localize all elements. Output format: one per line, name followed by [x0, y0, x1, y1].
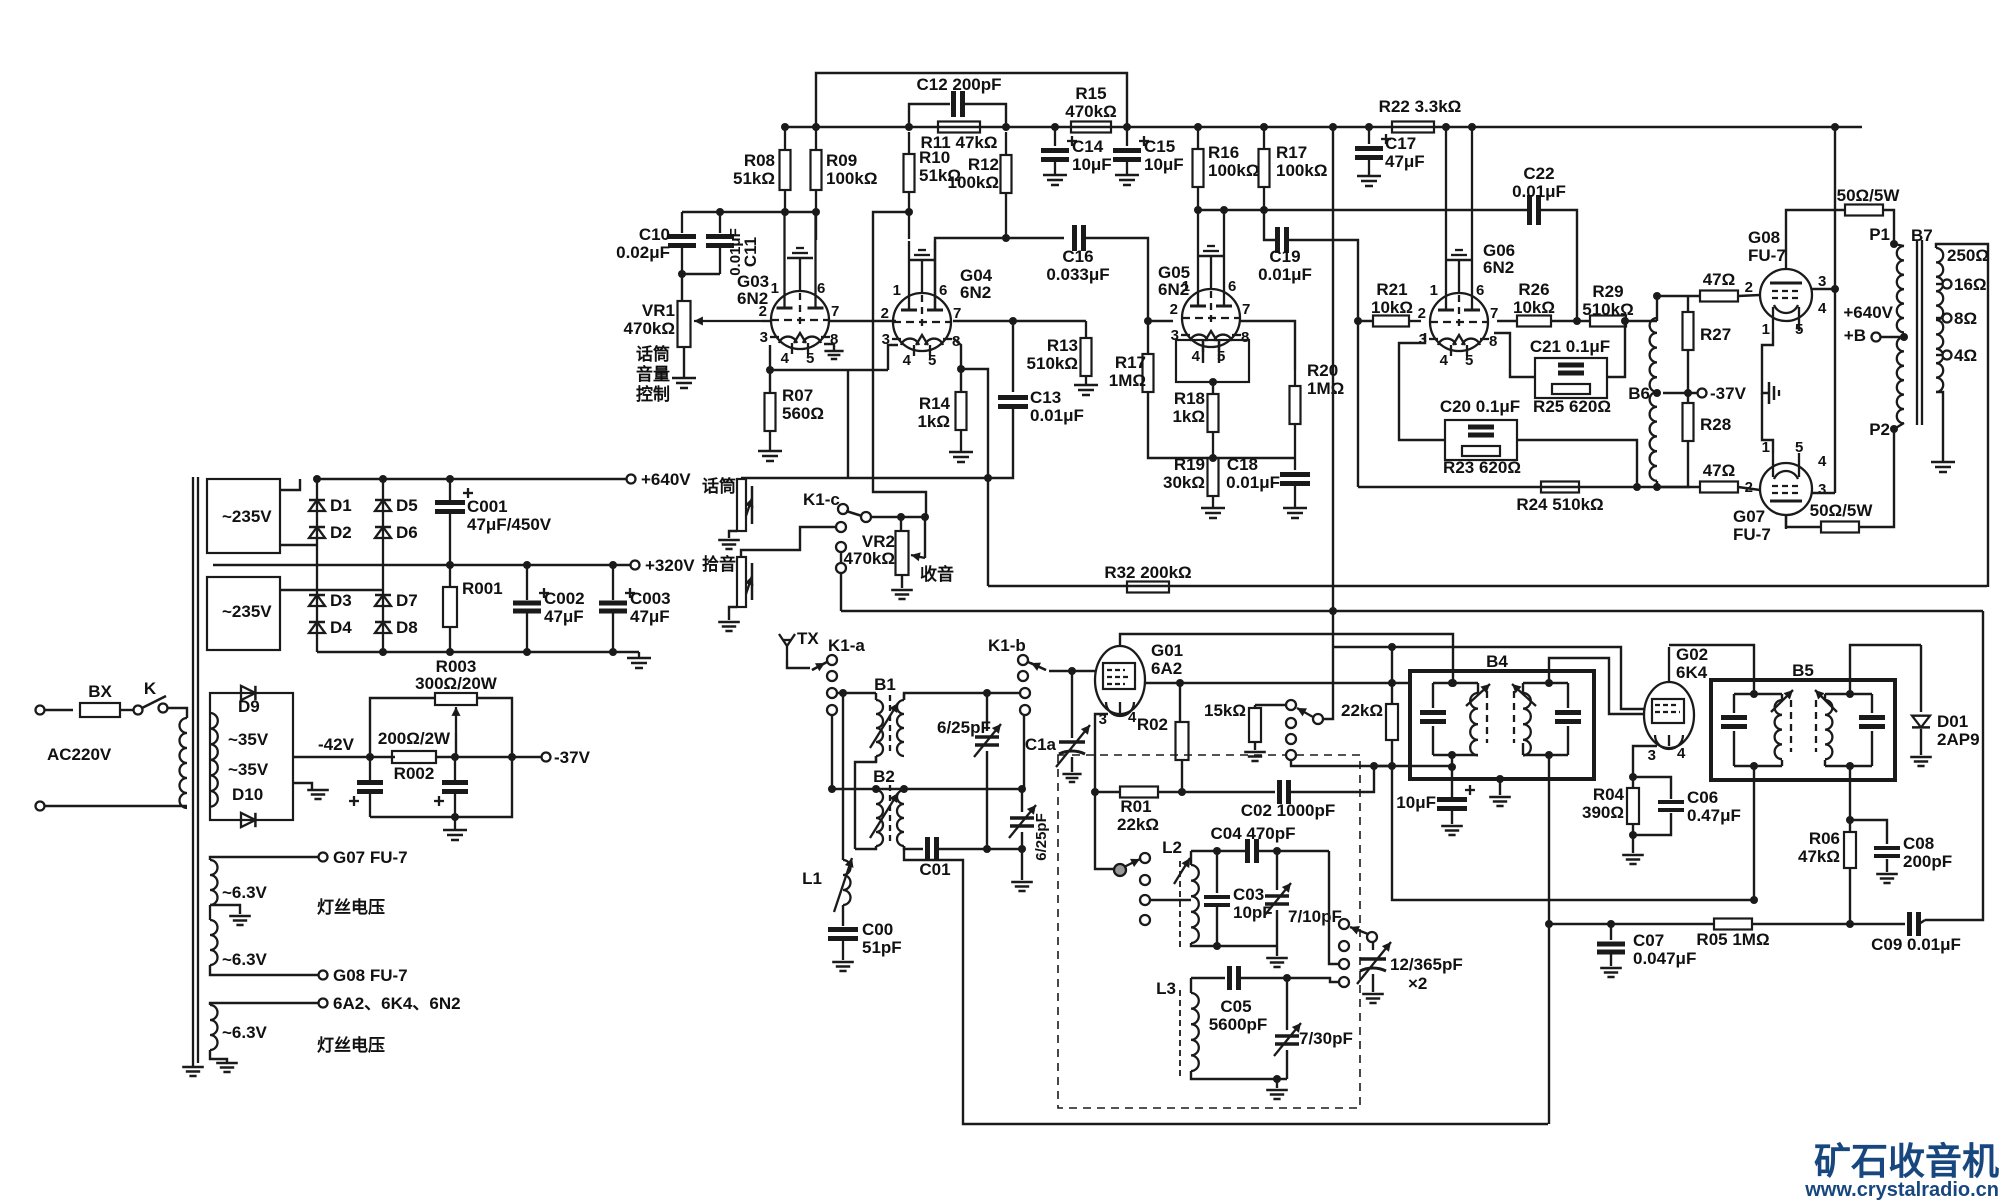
- svg-text:6/25pF: 6/25pF: [1033, 813, 1050, 861]
- capacitor C11: [706, 212, 760, 276]
- capacitor C06: [1633, 777, 1741, 835]
- svg-text:3: 3: [1818, 273, 1826, 290]
- wire R24 row: [1358, 486, 1690, 488]
- capacitor C05: [1209, 966, 1268, 1034]
- wire B2 gnd link: [904, 846, 963, 867]
- wire G03 pin8 gnd: [824, 344, 844, 359]
- wire 22k down: [1392, 766, 1754, 900]
- svg-text:-37V: -37V: [1710, 384, 1747, 403]
- resistor 47b: [1700, 461, 1738, 493]
- trimmer 7/30: [1274, 978, 1353, 1079]
- svg-text:51kΩ: 51kΩ: [733, 169, 775, 188]
- svg-text:510kΩ: 510kΩ: [1582, 300, 1633, 319]
- svg-text:R18: R18: [1174, 389, 1205, 408]
- ground VR2: [891, 590, 913, 599]
- wire G07 cathode: [1762, 393, 1773, 453]
- capacitor 10uF: [1396, 767, 1475, 824]
- svg-text:R28: R28: [1700, 415, 1731, 434]
- svg-text:300Ω/20W: 300Ω/20W: [415, 674, 498, 693]
- svg-text:7/30pF: 7/30pF: [1299, 1029, 1353, 1048]
- terminal 6A2 heater: [319, 994, 461, 1013]
- svg-text:C01: C01: [919, 860, 950, 879]
- wire C05 right: [1239, 974, 1339, 982]
- svg-text:~6.3V: ~6.3V: [222, 1023, 268, 1042]
- terminal G07 heater: [319, 848, 408, 867]
- capacitor C12: [916, 75, 1001, 117]
- tube G01 6A2: [1095, 646, 1145, 716]
- trimmer 6/25 a: [937, 693, 1001, 849]
- wire to VR1: [681, 274, 683, 302]
- svg-text:7/10pF: 7/10pF: [1288, 907, 1342, 926]
- svg-text:C02 1000pF: C02 1000pF: [1241, 801, 1336, 820]
- pentode G07: [1760, 453, 1812, 529]
- svg-text:D10: D10: [232, 785, 263, 804]
- label L2: [1162, 838, 1182, 857]
- svg-text:R08: R08: [744, 151, 775, 170]
- svg-text:R22 3.3kΩ: R22 3.3kΩ: [1379, 97, 1462, 116]
- svg-text:话筒: 话筒: [702, 476, 736, 496]
- B4 left cap: [1420, 683, 1446, 755]
- capacitor C14: [1041, 127, 1112, 175]
- svg-text:5: 5: [1795, 321, 1803, 338]
- svg-text:560Ω: 560Ω: [782, 404, 824, 423]
- contact K1a 4: [827, 705, 837, 715]
- wire G04 pin8 down: [953, 338, 965, 373]
- switch K1-b: [988, 636, 1030, 715]
- resistor R13: [1027, 321, 1092, 385]
- potentiometer VR1: [624, 301, 691, 347]
- svg-text:~6.3V: ~6.3V: [222, 883, 268, 902]
- resistor R22: [1379, 97, 1462, 133]
- svg-text:4: 4: [903, 352, 912, 369]
- ground VR1: [672, 378, 696, 388]
- wire switch to primary: [167, 708, 187, 718]
- svg-text:B5: B5: [1792, 661, 1814, 680]
- wire C1a drop: [1071, 671, 1073, 738]
- wire G05 pins345: [1203, 340, 1219, 363]
- svg-text:1: 1: [1430, 282, 1438, 299]
- svg-text:D3: D3: [330, 591, 352, 610]
- wire 22k node: [1374, 762, 1396, 770]
- svg-text:D01: D01: [1937, 712, 1968, 731]
- diode D7: [375, 591, 418, 610]
- wire C12 branch: [909, 104, 1006, 127]
- capacitor C15: [1113, 127, 1184, 175]
- svg-text:7: 7: [831, 303, 839, 320]
- svg-text:100kΩ: 100kΩ: [1208, 161, 1259, 180]
- svg-text:R09: R09: [826, 151, 857, 170]
- wire K1c common: [871, 513, 929, 521]
- svg-text:+B: +B: [1844, 326, 1866, 345]
- svg-text:控制: 控制: [636, 384, 670, 404]
- svg-text:6N2: 6N2: [960, 283, 991, 302]
- svg-text:FU-7: FU-7: [1733, 525, 1771, 544]
- svg-text:3: 3: [1818, 481, 1826, 498]
- VR1 wiper arrow: [694, 316, 762, 325]
- svg-text:470kΩ: 470kΩ: [624, 319, 675, 338]
- wire G01 plate top: [1120, 634, 1457, 687]
- svg-text:1: 1: [771, 280, 779, 297]
- node +B tap: [1843, 303, 1908, 345]
- svg-text:0.033μF: 0.033μF: [1046, 265, 1109, 284]
- svg-text:470kΩ: 470kΩ: [1065, 102, 1116, 121]
- terminal +640V: [627, 470, 692, 489]
- svg-text:0.01μF: 0.01μF: [1226, 473, 1280, 492]
- coil L1: [802, 693, 853, 912]
- wire 50a to P1: [1883, 210, 1894, 244]
- resistor 15k: [1204, 701, 1261, 750]
- K1b arm: [1028, 662, 1046, 671]
- resistor R17b 1M: [1109, 321, 1154, 430]
- svg-text:L2: L2: [1162, 838, 1182, 857]
- svg-text:8Ω: 8Ω: [1954, 309, 1977, 328]
- svg-text:AC220V: AC220V: [47, 745, 112, 764]
- wire sel to L2 tap: [1150, 899, 1191, 901]
- svg-text:51pF: 51pF: [862, 938, 902, 957]
- svg-text:6: 6: [1228, 278, 1236, 295]
- wire B4 left bottom out: [1448, 755, 1456, 771]
- capacitor C17: [1355, 127, 1425, 176]
- wire R003 loop: [370, 698, 512, 757]
- svg-text:G07 FU-7: G07 FU-7: [333, 848, 408, 867]
- capacitor bias 2: [434, 757, 468, 817]
- svg-text:R05 1MΩ: R05 1MΩ: [1696, 930, 1769, 949]
- svg-text:C1a: C1a: [1025, 735, 1057, 754]
- B4 core dashes: [1487, 691, 1514, 743]
- tube G02 6K4: [1644, 647, 1694, 749]
- wire G05 grid left: [1144, 316, 1173, 325]
- wire R10 to G04 plate: [905, 208, 913, 216]
- ground C15: [1115, 175, 1139, 185]
- terminal 16ohm: [1936, 275, 1987, 294]
- capacitor C03: [1204, 851, 1273, 946]
- wire G07 plate bottom: [1786, 515, 1821, 527]
- svg-text:6A2: 6A2: [1151, 659, 1182, 678]
- varcap C1a: [1025, 725, 1090, 767]
- wire heater3 top: [210, 1003, 318, 1005]
- wire sec bottom: [1936, 392, 1943, 462]
- dashed osc box: [1058, 755, 1360, 1108]
- svg-text:0.01μF: 0.01μF: [727, 228, 744, 276]
- B5 left coil: [1775, 694, 1782, 766]
- wire radio bus: [841, 610, 1983, 612]
- wire C20 right: [1517, 440, 1641, 491]
- svg-text:1: 1: [893, 282, 901, 299]
- svg-text:B6: B6: [1628, 384, 1650, 403]
- jack pickup: [702, 554, 753, 607]
- resistor 22k: [1341, 643, 1398, 766]
- heater winding 1: [210, 860, 218, 905]
- ground heater: [216, 1063, 238, 1072]
- svg-text:C04 470pF: C04 470pF: [1210, 824, 1295, 843]
- capacitor C20: [1440, 397, 1520, 435]
- wire K1c contact2: [836, 522, 846, 532]
- svg-text:6A2、6K4、6N2: 6A2、6K4、6N2: [333, 994, 461, 1013]
- capacitor C16: [1046, 225, 1109, 284]
- ground bridge: [627, 652, 651, 668]
- svg-text:C05: C05: [1220, 997, 1251, 1016]
- box C21 R25: [1535, 358, 1607, 398]
- wire VR1 bottom: [683, 347, 685, 378]
- ground C14: [1043, 175, 1067, 185]
- svg-text:P2: P2: [1869, 420, 1890, 439]
- svg-text:47μF/450V: 47μF/450V: [467, 515, 552, 534]
- svg-text:R25 620Ω: R25 620Ω: [1533, 397, 1611, 416]
- resistor R10: [904, 132, 962, 239]
- wire C22 right down: [1539, 210, 1581, 325]
- svg-text:5600pF: 5600pF: [1209, 1015, 1268, 1034]
- terminal AC bottom: [36, 802, 45, 811]
- svg-text:R14: R14: [919, 394, 951, 413]
- label G02: [1676, 645, 1708, 682]
- svg-text:+640V: +640V: [641, 470, 691, 489]
- svg-text:K1-a: K1-a: [828, 636, 865, 655]
- wire G01 osc grid down: [1095, 792, 1115, 869]
- wire mic tip row: [741, 477, 986, 479]
- svg-text:0.01μF: 0.01μF: [1512, 182, 1566, 201]
- resistor R11: [921, 122, 998, 153]
- trimmer 6/25 b: [1009, 789, 1050, 861]
- wire L3 top row: [1191, 977, 1225, 979]
- svg-text:C002: C002: [544, 589, 585, 608]
- svg-text:8: 8: [1489, 333, 1497, 350]
- capacitor C002: [513, 565, 585, 652]
- label mic volume control: [636, 344, 670, 404]
- svg-text:2: 2: [1745, 279, 1753, 296]
- resistor R26: [1497, 280, 1590, 327]
- svg-text:R27: R27: [1700, 325, 1731, 344]
- wire mic riser: [847, 370, 849, 478]
- diode D3: [309, 591, 352, 610]
- svg-text:L1: L1: [802, 869, 822, 888]
- capacitor C22: [1512, 164, 1566, 225]
- svg-text:100kΩ: 100kΩ: [826, 169, 877, 188]
- svg-text:50Ω/5W: 50Ω/5W: [1837, 186, 1901, 205]
- diode D1: [309, 496, 352, 515]
- svg-text:6K4: 6K4: [1676, 663, 1708, 682]
- svg-text:拾音: 拾音: [702, 554, 736, 574]
- wire K1b to G01: [1049, 667, 1095, 675]
- ground C08: [1876, 874, 1898, 883]
- wire sec top 250: [1936, 244, 1989, 587]
- svg-text:1kΩ: 1kΩ: [917, 412, 950, 431]
- resistor R05: [1696, 919, 1905, 950]
- svg-text:7: 7: [953, 305, 961, 322]
- potentiometer VR2: [844, 517, 954, 584]
- wire C19 right: [1287, 240, 1358, 319]
- svg-text:D9: D9: [238, 697, 260, 716]
- wire 50b to P2: [1859, 429, 1894, 527]
- svg-text:6: 6: [817, 280, 825, 297]
- svg-text:4: 4: [781, 350, 790, 367]
- wire y210 bus: [1198, 206, 1527, 214]
- transformer B7 primary: [1897, 226, 1933, 423]
- wire top loop: [816, 73, 1127, 127]
- capacitor C02: [1241, 780, 1336, 820]
- ground R07: [758, 451, 782, 461]
- svg-text:~6.3V: ~6.3V: [222, 950, 268, 969]
- wire G08 pin3: [1812, 288, 1835, 290]
- wire C21 right up: [1607, 317, 1629, 377]
- wire P2 to B7: [1894, 423, 1904, 429]
- wire det out row: [1549, 920, 1714, 928]
- diode column 1 wire: [316, 479, 318, 652]
- label ~6.3V c: [222, 1023, 268, 1042]
- resistor R18: [1172, 389, 1218, 458]
- ground L2 tank: [1266, 946, 1288, 967]
- label ~6.3V b: [222, 950, 268, 969]
- svg-text:10μF: 10μF: [1144, 155, 1184, 174]
- svg-text:1kΩ: 1kΩ: [1172, 407, 1205, 426]
- svg-text:3: 3: [760, 329, 768, 346]
- antenna TX: [779, 629, 819, 660]
- wire pickup tip: [741, 527, 836, 557]
- label L3: [1156, 979, 1176, 998]
- svg-text:音量: 音量: [636, 364, 670, 384]
- wire HV1 bottom: [280, 544, 317, 546]
- svg-text:C22: C22: [1523, 164, 1554, 183]
- svg-text:6: 6: [939, 282, 947, 299]
- svg-text:C18: C18: [1227, 455, 1258, 474]
- resistor R21: [1354, 280, 1421, 327]
- B4 arrows: [1466, 684, 1536, 706]
- svg-text:C09 0.01μF: C09 0.01μF: [1871, 935, 1961, 954]
- svg-text:3: 3: [1171, 327, 1179, 344]
- svg-text:~235V: ~235V: [222, 507, 272, 526]
- wire G01 pin3 down: [1091, 714, 1108, 796]
- label ~35V a: [228, 730, 269, 749]
- capacitor C001: [435, 479, 552, 565]
- B4 left tank wires: [1433, 679, 1478, 759]
- wire R21 node down: [1357, 321, 1359, 487]
- triode G06: [1429, 127, 1489, 356]
- svg-text:390Ω: 390Ω: [1582, 803, 1624, 822]
- svg-text:矿石收音机: 矿石收音机: [1814, 1141, 1999, 1182]
- wire 22k node into B4: [1374, 765, 1452, 767]
- label G07: [1733, 507, 1771, 544]
- svg-text:16Ω: 16Ω: [1954, 275, 1987, 294]
- wire L2 top row: [1191, 847, 1247, 855]
- svg-text:C19: C19: [1269, 247, 1300, 266]
- wire screens vertical: [1831, 127, 1839, 493]
- primary winding: [180, 718, 188, 808]
- svg-text:G07: G07: [1733, 507, 1765, 526]
- ground R14: [949, 452, 973, 462]
- diode D6: [375, 523, 418, 542]
- svg-text:+640V: +640V: [1843, 303, 1893, 322]
- switch K1-c: [803, 490, 871, 522]
- svg-text:K1-c: K1-c: [803, 490, 840, 509]
- pentode G08: [1760, 255, 1812, 331]
- coil L3: [1180, 978, 1199, 1076]
- svg-text:100kΩ: 100kΩ: [948, 173, 999, 192]
- wire B5 right bottom out: [1846, 766, 1854, 824]
- resistor R27: [1683, 296, 1732, 393]
- wire G07 pin3: [1812, 492, 1835, 494]
- svg-text:200Ω/2W: 200Ω/2W: [378, 729, 451, 748]
- label ~35V b: [228, 760, 269, 779]
- heater winding 2: [210, 905, 218, 965]
- svg-text:D8: D8: [396, 618, 418, 637]
- svg-text:10μF: 10μF: [1396, 793, 1436, 812]
- svg-text:4: 4: [1677, 745, 1686, 762]
- svg-text:~35V: ~35V: [228, 760, 269, 779]
- wire B5 left bottom down: [1750, 766, 1758, 904]
- ground C1a: [1062, 757, 1081, 782]
- svg-text:R001: R001: [462, 579, 503, 598]
- svg-text:C003: C003: [630, 589, 671, 608]
- ground R04: [1622, 835, 1644, 864]
- wire R18 node: [1148, 430, 1295, 462]
- wire R002 right: [436, 753, 541, 761]
- label G03: [737, 272, 769, 308]
- ground core: [182, 1063, 204, 1076]
- pins G01: [1099, 709, 1137, 728]
- B4 right tank wires: [1523, 679, 1568, 759]
- contact K1a 3: [827, 688, 837, 698]
- svg-text:47kΩ: 47kΩ: [1798, 847, 1840, 866]
- wire 15k row: [1255, 700, 1296, 760]
- resistor R23: [1443, 446, 1521, 477]
- node P2: [1869, 420, 1898, 439]
- svg-text:47μF: 47μF: [630, 607, 670, 626]
- wire VR2 bottom: [901, 575, 903, 588]
- svg-text:C001: C001: [467, 497, 508, 516]
- wire bias center tap ground: [293, 783, 329, 799]
- wire G01 right node: [1145, 679, 1410, 687]
- pins G03: [759, 280, 840, 367]
- resistor R29: [1582, 282, 1633, 327]
- svg-text:B1: B1: [874, 675, 896, 694]
- wire G08 plate top: [1786, 210, 1846, 255]
- label heater voltage a: [317, 897, 385, 917]
- wire heater3 bottom: [210, 1050, 227, 1063]
- switch band sel 2: [1339, 919, 1377, 987]
- pins G06: [1418, 282, 1499, 369]
- triode G05: [1181, 210, 1241, 352]
- svg-text:470kΩ: 470kΩ: [844, 549, 895, 568]
- svg-text:C13: C13: [1030, 388, 1061, 407]
- transformer B6 winding: [1628, 318, 1657, 481]
- ground trim b: [1011, 882, 1033, 891]
- resistor R25: [1533, 384, 1611, 416]
- wire bias bottom: [370, 757, 512, 821]
- fuse BX: [80, 682, 120, 717]
- svg-text:250Ω: 250Ω: [1947, 246, 1989, 265]
- svg-text:5: 5: [1795, 439, 1803, 456]
- wire C04 to band switch: [1329, 851, 1339, 964]
- svg-text:4Ω: 4Ω: [1954, 346, 1977, 365]
- wire B4 right bottom out: [1545, 755, 1553, 1124]
- svg-text:1MΩ: 1MΩ: [1307, 379, 1344, 398]
- wire K1b contact4 down: [1023, 715, 1025, 789]
- resistor R19: [1163, 455, 1219, 508]
- svg-text:www.crystalradio.cn: www.crystalradio.cn: [1804, 1179, 1999, 1200]
- svg-text:C06: C06: [1687, 788, 1718, 807]
- wire TX to K1a: [787, 660, 810, 668]
- wire to G04 pin3: [888, 345, 898, 370]
- resistor 50b: [1810, 501, 1874, 533]
- svg-text:C20 0.1μF: C20 0.1μF: [1440, 397, 1520, 416]
- wire HV1 top to bridge: [280, 479, 300, 490]
- svg-text:×2: ×2: [1408, 974, 1427, 993]
- wire G03 pin7 to G04 pin2: [829, 320, 896, 322]
- svg-text:C00: C00: [862, 920, 893, 939]
- terminal 8ohm: [1936, 309, 1977, 328]
- wire R01 row: [1095, 791, 1120, 793]
- heater winding 3: [210, 1005, 218, 1050]
- wire B6 bottom: [1653, 481, 1700, 491]
